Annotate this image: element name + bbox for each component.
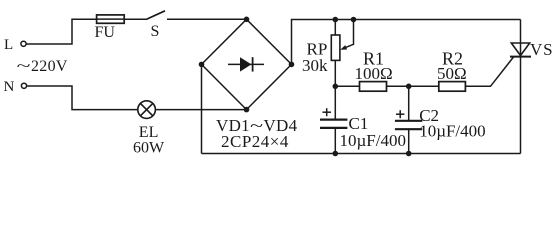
wire middle rail to R1: [335, 85, 359, 87]
svg-text:50Ω: 50Ω: [437, 64, 467, 83]
wire switch to bridge top: [167, 18, 247, 20]
switch S: [146, 11, 165, 20]
node bridge bottom: [244, 107, 250, 113]
node bridge right: [289, 62, 295, 68]
resistor R2: [439, 82, 466, 92]
wire RP wiper: [343, 20, 354, 49]
svg-text:60W: 60W: [133, 139, 165, 156]
capacitor C1 plus sign: [323, 108, 332, 116]
wire R1 to R2: [387, 85, 439, 87]
resistor R1: [360, 82, 387, 92]
RP wiper arrowhead: [340, 45, 347, 50]
fuse FU: [97, 15, 125, 23]
svg-text:S: S: [151, 23, 160, 40]
wire lamp to bridge bottom: [155, 109, 246, 111]
terminal N: [21, 83, 26, 88]
capacitor C2: [395, 86, 422, 153]
wire RP top lead: [334, 20, 336, 36]
node C2 bottom: [406, 151, 412, 157]
svg-text:10µF/400: 10µF/400: [340, 131, 406, 150]
svg-text:10µF/400: 10µF/400: [419, 122, 485, 141]
wire VS anode-cathode vertical: [520, 20, 522, 154]
node RP top: [333, 17, 339, 23]
svg-text:FU: FU: [95, 24, 116, 41]
capacitor C2 plus sign: [396, 110, 404, 118]
svg-text:L: L: [4, 37, 13, 53]
svg-text:100Ω: 100Ω: [355, 64, 393, 83]
bridge rectifier VD1~VD4 diamond: [202, 19, 292, 109]
svg-text:VS: VS: [530, 40, 553, 59]
lamp EL: [138, 101, 156, 119]
wire RP bottom lead: [334, 60, 336, 86]
wire L to fuse: [26, 19, 96, 44]
wire fuse to switch: [124, 18, 146, 20]
svg-text:30k: 30k: [302, 56, 328, 75]
diode symbol inside bridge: [228, 57, 264, 71]
capacitor C1: [320, 86, 347, 153]
wire bridge left to bottom rail: [201, 64, 203, 153]
svg-text:C1: C1: [349, 114, 369, 133]
node R1/R2/C2 junction: [406, 84, 412, 90]
svg-text:2CP24×4: 2CP24×4: [221, 132, 289, 151]
node bridge top: [244, 17, 250, 23]
thyristor VS: [510, 43, 531, 57]
wire bottom rail: [202, 153, 521, 155]
node bridge left: [199, 62, 205, 68]
terminal L: [21, 41, 26, 46]
svg-text:~220V: ~220V: [17, 58, 68, 75]
wire bridge right to top rail: [292, 20, 521, 65]
node C1 bottom: [333, 151, 339, 157]
svg-text:N: N: [4, 79, 15, 95]
wire N to lamp: [27, 86, 138, 110]
node RP wiper top: [351, 17, 357, 23]
potentiometer RP: [331, 35, 340, 60]
node RP bottom / C1 top: [333, 84, 339, 90]
wire R2 to VS gate: [465, 57, 513, 86]
